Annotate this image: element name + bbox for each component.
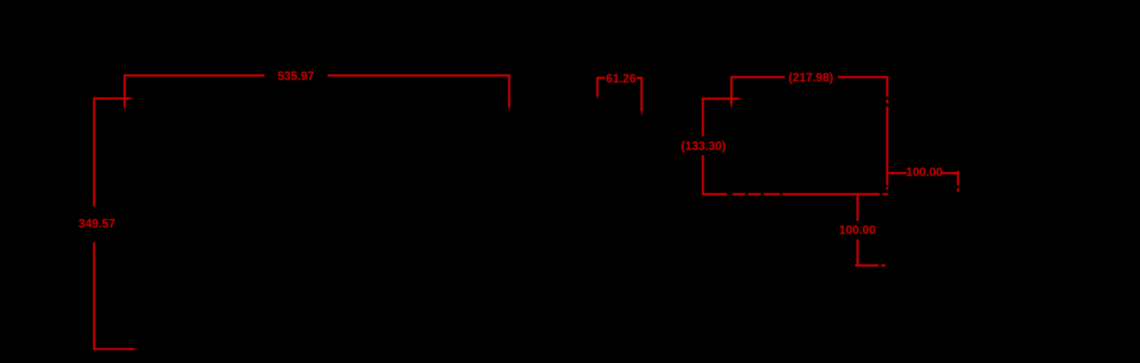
svg-text:535.97: 535.97 — [277, 69, 314, 83]
dimension 100.00 horizontal: left arrowhead — [888, 172, 893, 175]
dimension 100.00 horizontal: right arrowhead — [954, 172, 959, 175]
dimension 61.26: dimension line left segment — [597, 77, 606, 79]
dimension 100.00 horizontal: dimension line left segment — [888, 172, 906, 174]
dimension 100.00 vertical: dimension line top segment — [857, 195, 859, 221]
hidden board edge: bottom line dash 2 — [733, 193, 746, 195]
dimension 535.97: dimension line right segment — [328, 74, 511, 76]
svg-text:(133.30): (133.30) — [681, 139, 726, 153]
dimension 349.57: top extension line — [93, 97, 127, 99]
dimension 100.00 vertical: bottom extension line segment 1 — [855, 264, 879, 266]
hidden board edge: bottom line segment 1 — [702, 193, 727, 195]
dimension 61.26: dimension line right segment — [637, 77, 643, 79]
dimension 349.57: dimension line bottom segment — [93, 242, 95, 350]
dimension 61.26: right extension drop — [641, 77, 643, 109]
hidden board edge: bottom line dash 3 — [748, 193, 761, 195]
svg-text:100.00: 100.00 — [839, 223, 876, 237]
dimension 535.97: right arrowhead down — [508, 104, 511, 112]
dimension 61.26: left arrowhead down — [596, 95, 598, 100]
dimension (133.30): top arrowhead right — [736, 97, 743, 100]
dimension 535.97: left arrowhead down — [123, 104, 126, 112]
dimension 100.00 vertical: top arrowhead up — [856, 195, 859, 200]
dimension (133.30): dimension line top segment — [702, 98, 704, 136]
dimension 100.00 horizontal: right extension line dashed segment 2 — [957, 188, 959, 192]
dimension (217.98): right extension line dashed segment 4 — [886, 187, 888, 190]
dimension 535.97: left extension drop — [124, 75, 126, 105]
hidden board edge: bottom line dash 6 — [883, 193, 889, 195]
hidden board edge: bottom line dash 4 — [764, 193, 780, 195]
svg-text:(217.98): (217.98) — [789, 71, 834, 85]
dimension 349.57: bottom arrowhead right — [131, 348, 138, 351]
dimension 61.26: left extension drop — [596, 77, 598, 96]
dimension 61.26: right arrowhead down — [640, 109, 643, 117]
dimension (217.98): right extension line dashed segment 2 — [886, 100, 888, 104]
dimension (133.30): dimension line bottom segment — [702, 155, 704, 195]
dimension (217.98): left arrowhead down — [730, 102, 733, 110]
svg-text:100.00: 100.00 — [906, 165, 943, 179]
dimension 100.00 horizontal: dimension line right segment — [941, 172, 958, 174]
dimension (217.98): dimension line left segment — [731, 76, 786, 78]
dimension (217.98): right extension line dashed segment 1 — [886, 76, 888, 97]
dimension 100.00 vertical: dimension line bottom segment — [857, 240, 859, 265]
dimension 535.97: dimension line left segment — [124, 74, 265, 76]
dimension 349.57: dimension line top segment — [93, 98, 95, 207]
hidden board edge: bottom line segment 5 — [782, 193, 880, 195]
svg-text:61.26: 61.26 — [606, 71, 636, 85]
dimension 349.57: top arrowhead right — [127, 97, 134, 100]
dimension 535.97: right extension drop — [508, 75, 510, 105]
dimension 100.00 horizontal: right extension line dashed segment 1 — [957, 171, 959, 186]
svg-text:349.57: 349.57 — [79, 217, 116, 231]
dimension 100.00 vertical: bottom arrowhead down — [856, 261, 859, 266]
dimension 100.00 vertical: bottom extension line dash 2 — [881, 264, 886, 266]
dimension (217.98): dimension line right segment — [838, 76, 888, 78]
dimension 349.57: bottom extension line — [93, 348, 131, 350]
dimension (217.98): right extension line dashed segment 3 — [886, 107, 888, 186]
dimension (133.30): top extension line — [702, 98, 736, 100]
dimension (217.98): left extension drop — [730, 76, 732, 102]
